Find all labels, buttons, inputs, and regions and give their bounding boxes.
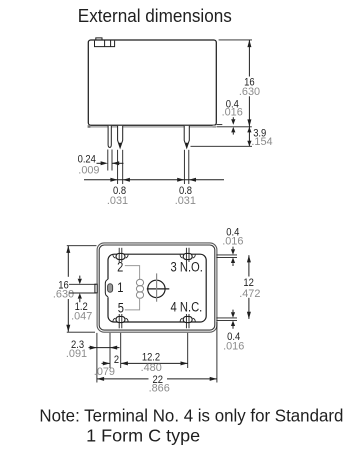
svg-text:.016: .016: [222, 236, 243, 248]
svg-text:1: 1: [117, 280, 123, 295]
svg-text:5: 5: [118, 300, 124, 315]
svg-text:.480: .480: [141, 362, 162, 374]
svg-text:.047: .047: [71, 310, 92, 322]
svg-text:.472: .472: [239, 288, 260, 300]
svg-text:4 N.C.: 4 N.C.: [171, 299, 203, 314]
svg-text:.031: .031: [175, 195, 196, 207]
svg-text:.016: .016: [223, 341, 244, 353]
svg-text:1 Form C type: 1 Form C type: [86, 425, 200, 445]
svg-text:.091: .091: [66, 348, 87, 360]
svg-text:External dimensions: External dimensions: [78, 6, 232, 26]
svg-text:.016: .016: [222, 107, 243, 119]
svg-text:.031: .031: [107, 195, 128, 207]
svg-text:3 N.O.: 3 N.O.: [171, 260, 203, 275]
svg-text:.079: .079: [94, 366, 115, 378]
svg-text:.009: .009: [78, 165, 99, 177]
svg-text:.154: .154: [251, 136, 272, 148]
svg-text:.866: .866: [149, 382, 170, 394]
svg-text:.630: .630: [239, 86, 260, 98]
svg-text:.630: .630: [53, 289, 74, 301]
svg-text:0.24: 0.24: [78, 153, 96, 165]
svg-text:Note: Terminal No. 4 is only f: Note: Terminal No. 4 is only for Standar…: [39, 405, 343, 425]
svg-text:2: 2: [114, 354, 119, 366]
svg-text:2: 2: [117, 260, 123, 275]
